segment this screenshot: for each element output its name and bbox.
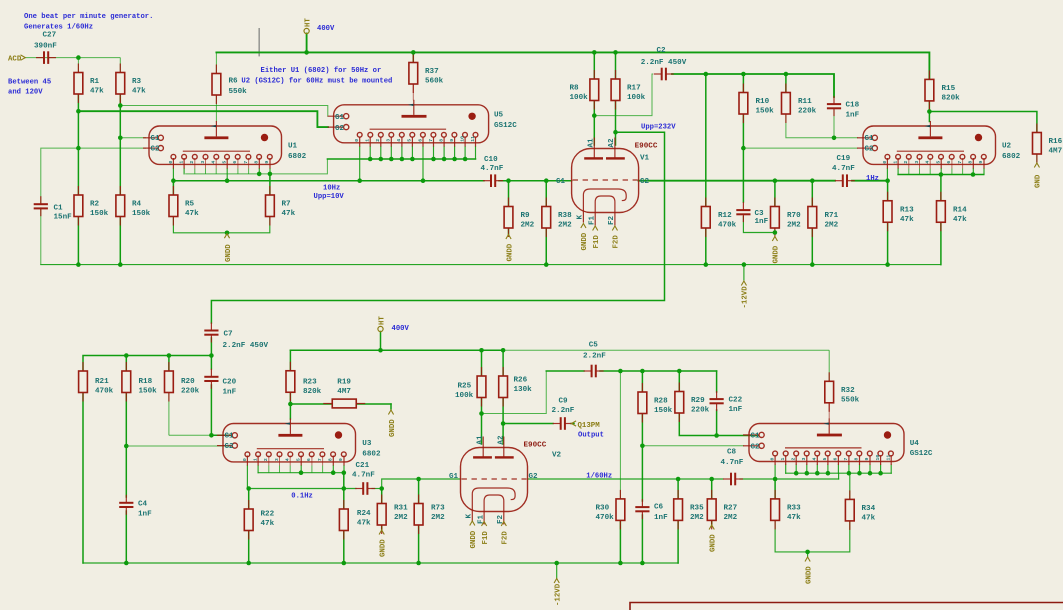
wire R22 column [248,489,250,510]
wire R3-R4 column [119,94,121,195]
svg-text:G2: G2 [335,125,345,133]
svg-text:U1: U1 [288,143,298,151]
wire R8 feed [593,52,595,79]
svg-text:10Hz: 10Hz [323,185,340,193]
svg-text:2M2: 2M2 [394,514,408,522]
resistor R21 [79,362,114,402]
wire R70 stub [774,181,776,207]
svg-text:R4: R4 [132,201,142,209]
supply HT top [304,18,312,34]
wire R31 stub [381,489,383,504]
svg-text:2M2: 2M2 [521,222,535,230]
wire R5 branch [172,181,174,195]
resistor R1 [74,64,104,104]
svg-text:F2D: F2D [613,235,621,249]
svg-text:R70: R70 [787,212,801,220]
svg-text:150k: 150k [132,210,151,218]
title block frame [630,603,1063,610]
wire HT 400V rail top [216,52,929,79]
wire R71 column [811,181,813,207]
output pin Q13PM [572,421,601,430]
svg-text:2M2: 2M2 [431,514,445,522]
svg-text:G1: G1 [151,135,161,143]
wire R3 top stub [119,58,121,73]
svg-text:R35: R35 [690,504,704,512]
wire R32 feed [828,350,830,381]
supply HT bottom [378,316,386,332]
svg-text:2.2nF: 2.2nF [583,353,606,361]
wire R32 to U4 anode [828,403,830,419]
svg-text:R6: R6 [229,78,239,86]
svg-text:E90CC: E90CC [524,441,547,449]
svg-text:G1: G1 [556,178,566,186]
svg-text:GS12C: GS12C [494,122,517,130]
capacitor C4 [119,495,152,519]
wire C5 feed [546,370,584,372]
wire C5 left leg [482,371,548,414]
svg-text:R21: R21 [95,378,109,386]
svg-text:C27: C27 [43,32,57,40]
svg-text:R16: R16 [1049,138,1063,146]
svg-text:560k: 560k [425,78,444,86]
svg-text:R26: R26 [514,377,528,385]
resistor R22 [244,500,274,540]
svg-text:R10: R10 [756,98,770,106]
svg-text:C22: C22 [729,397,743,405]
svg-text:R9: R9 [521,212,531,220]
svg-text:47k: 47k [953,216,967,224]
resistor R20 [165,362,200,402]
wire U5 anode from R37 [412,84,414,100]
svg-text:R31: R31 [394,505,408,513]
svg-text:R19: R19 [337,379,351,387]
svg-text:100k: 100k [627,94,646,102]
resistor R70 [771,198,802,238]
capacitor C18 [827,96,860,119]
svg-text:15nF: 15nF [54,214,73,222]
svg-text:C18: C18 [846,101,860,109]
svg-text:4M7: 4M7 [337,388,351,396]
capacitor C27 [34,32,57,64]
svg-text:470k: 470k [95,388,114,396]
wire C20 column [210,356,212,370]
resistor R17 [611,70,646,110]
svg-text:R13: R13 [900,206,914,214]
svg-text:GNDD: GNDD [470,530,478,548]
resistor R32 [825,372,860,412]
svg-text:R22: R22 [261,511,275,519]
svg-text:R3: R3 [132,78,142,86]
svg-text:4.7nF: 4.7nF [481,165,504,173]
wire 0.1Hz row [249,488,356,490]
junction dots bottom section [124,348,883,565]
capacitor C20 [204,369,236,397]
wire R37 feed [412,52,414,62]
resistor R26 [499,367,532,407]
svg-text:2M2: 2M2 [724,514,738,522]
svg-text:C7: C7 [224,331,234,339]
wire R33 column [774,479,776,499]
svg-text:F1: F1 [589,215,597,225]
capacitor C21 [352,462,375,495]
svg-text:U2: U2 [1002,143,1012,151]
ground GNDD at R19 [388,410,396,437]
resistor R19 [323,379,365,408]
svg-text:U3: U3 [362,440,372,448]
resistor R18 [122,362,157,402]
wire C9 row [503,423,553,425]
net label F1D at V1 [593,226,601,249]
wire U4 pin7 jog [838,473,840,479]
wire R30 column [619,371,621,499]
resistor R34 [845,490,875,530]
wire R21 column [82,392,84,563]
wire R26 feed [502,350,504,376]
svg-text:R23: R23 [303,379,317,387]
wire C2 left leg [594,74,653,116]
wire R34 top [849,473,851,499]
svg-text:4.7nF: 4.7nF [721,459,744,467]
tube V1 E90CC double triode [556,138,658,226]
capacitor C1 [34,196,72,221]
wire U1 anode from R6 [215,95,217,122]
svg-text:Either U1 (6802) for 50Hz or: Either U1 (6802) for 50Hz or [261,67,382,75]
svg-text:R17: R17 [627,85,641,93]
wire R16 to GND [1036,154,1038,162]
wire U4 G2 net [642,445,744,447]
wire V1 A1 [593,101,595,145]
svg-text:C6: C6 [654,504,664,512]
svg-text:C3: C3 [755,210,765,218]
svg-text:G1: G1 [225,433,235,441]
svg-text:R37: R37 [425,68,439,76]
svg-text:0.1Hz: 0.1Hz [291,492,313,500]
wire R11 column [785,74,787,93]
wire U3 G2 net [126,445,230,447]
wire R18-C4 column [125,356,127,372]
wire 1Hz row [639,180,836,182]
capacitor C8 [721,449,744,486]
svg-text:Upp=232V: Upp=232V [641,124,676,132]
svg-text:R11: R11 [798,98,812,106]
svg-text:R15: R15 [942,85,956,93]
svg-text:150k: 150k [756,108,775,116]
svg-text:GNDD: GNDD [805,566,813,584]
resistor R30 [596,490,625,530]
svg-text:C21: C21 [356,462,370,470]
wire 1/60Hz row [528,478,724,480]
svg-text:47k: 47k [261,520,275,528]
wire HT2 drop [380,332,382,351]
junction dots top section [76,50,975,267]
wire U5 cathode bus [327,158,475,160]
capacitor C10 [481,156,504,187]
pin ACD input [8,55,25,64]
resistor R31 [377,495,408,535]
svg-text:6802: 6802 [288,153,307,161]
capacitor C5 [583,342,606,378]
svg-text:550k: 550k [841,396,860,404]
svg-text:1Hz: 1Hz [866,175,879,183]
wire C22 column [716,371,718,392]
resistor R24 [339,500,371,540]
svg-text:GNDD: GNDD [710,534,718,552]
svg-text:Output: Output [578,432,604,440]
wire R6 feed [215,52,217,73]
svg-text:HT: HT [378,316,386,325]
svg-text:47k: 47k [185,210,199,218]
svg-text:R32: R32 [841,387,855,395]
svg-text:R1: R1 [90,78,100,86]
wire R7 branch [269,174,271,195]
svg-text:R29: R29 [691,397,705,405]
wire R35 column [677,479,679,499]
wire R25 bottom to V2 A1 [481,398,483,445]
svg-text:Generates 1/60Hz: Generates 1/60Hz [24,24,93,32]
svg-text:47k: 47k [787,514,801,522]
svg-text:R7: R7 [282,201,292,209]
svg-text:220k: 220k [181,388,200,396]
resistor R29 [675,383,710,423]
wire R16 feed [929,112,1037,133]
wire R17 feed [615,52,617,79]
wire C1 bottom [40,207,42,264]
svg-text:2.2nF 450V: 2.2nF 450V [223,342,269,350]
svg-text:U4: U4 [910,440,920,448]
svg-text:GS12C: GS12C [910,450,933,458]
wire R24 column [343,473,345,509]
wire V1 A2 [615,101,617,145]
ground GNDD at V2 cathode [470,521,478,549]
wire 400V rail bottom [290,349,503,351]
capacitor C2 [641,47,687,80]
svg-text:R30: R30 [596,504,610,512]
wire R20 column [168,356,170,372]
svg-text:HT: HT [304,18,312,27]
svg-text:F2: F2 [608,215,616,225]
svg-text:400V: 400V [392,325,410,333]
wire R29 column [678,371,680,392]
svg-text:F1D: F1D [482,531,490,545]
svg-text:F2D: F2D [502,531,510,545]
net label F2D at V2 [501,522,509,545]
net label F1D at V2 [482,522,490,545]
resistor R23 [286,362,322,402]
svg-text:Upp=10V: Upp=10V [314,193,345,201]
wire R28-C6 column [641,371,643,392]
svg-text:R24: R24 [357,510,371,518]
resistor R2 [74,186,109,226]
svg-text:1nF: 1nF [729,406,743,414]
svg-text:130k: 130k [514,386,533,394]
wire R13 column [887,181,889,201]
svg-text:C1: C1 [54,205,64,213]
svg-text:47k: 47k [132,88,146,96]
wire U1 cathode bus [185,159,327,174]
svg-text:GNDD: GNDD [773,245,781,263]
svg-text:100k: 100k [455,392,474,400]
wire U3 cathode bus [258,472,344,474]
wire U2 G1 net [786,114,858,138]
svg-text:Q13PM: Q13PM [578,422,601,430]
wire -12VD stub bottom [556,563,558,578]
wire R23 feed [289,350,291,371]
svg-text:2M2: 2M2 [787,222,801,230]
wire U5 G1 net [120,106,328,117]
svg-text:G1: G1 [751,433,761,441]
wire U2 anode from R15 [928,101,930,122]
svg-text:G2: G2 [751,444,761,452]
resistor R12 [701,198,736,238]
resistor R35 [674,490,704,530]
capacitor C22 [710,391,743,414]
wire C2 right to C18 [672,74,834,97]
svg-text:R73: R73 [431,505,445,513]
resistor R7 [266,186,296,226]
svg-text:R33: R33 [787,504,801,512]
resistor R25 [455,367,486,407]
resistor R27 [707,490,737,530]
svg-text:E90CC: E90CC [635,143,658,151]
capacitor C19 [832,155,855,187]
svg-text:GND: GND [1035,174,1043,188]
svg-text:C5: C5 [589,342,599,350]
resistor R14 [937,192,968,232]
wire ACD input [25,57,120,59]
tube U2 dekatron 6802 [857,121,1021,181]
svg-text:K: K [577,215,585,220]
capacitor C9 [552,398,575,430]
supply -12VD top section [741,281,749,309]
svg-text:2M2: 2M2 [690,514,704,522]
wire R38 branch [545,181,547,207]
svg-text:GNDD: GNDD [506,243,514,261]
wire -12V rail [41,264,941,266]
wire U2 cathode bus [898,174,984,176]
wire R14 column [940,175,942,201]
svg-text:2M2: 2M2 [558,222,572,230]
svg-text:220k: 220k [691,407,710,415]
tube U5 dekatron GS12C [328,100,518,181]
resistor R38 [542,198,572,238]
svg-text:100k: 100k [570,94,589,102]
wire A2 to C7 link [211,132,664,323]
wire R23 to R19 and U3 anode [290,392,332,404]
svg-text:and 120V: and 120V [8,89,43,97]
resistor R9 [504,198,535,238]
svg-text:GNDD: GNDD [581,232,589,250]
svg-text:47k: 47k [862,514,876,522]
resistor R15 [925,70,960,110]
resistor R73 [414,495,445,535]
svg-text:-12VD: -12VD [742,286,750,309]
svg-text:390nF: 390nF [34,43,57,51]
svg-text:V1: V1 [640,154,650,162]
svg-text:GNDD: GNDD [225,244,233,262]
svg-text:A2: A2 [608,138,616,148]
svg-text:1nF: 1nF [138,511,152,519]
svg-text:150k: 150k [139,388,158,396]
wire R25 feed [481,350,483,376]
gray sheet edge line [258,28,260,56]
svg-text:GNDD: GNDD [389,419,397,437]
ground GNDD at V1 cathode [581,224,589,251]
wire C7 bottom to bias bus [83,338,211,371]
wire U5 G2 net [78,111,328,127]
svg-text:47k: 47k [357,520,371,528]
resistor R37 [409,54,444,94]
wire U1 G2 net from C1 [41,148,146,203]
svg-text:R34: R34 [862,505,876,513]
wire R26 bottom to V2 A2 [502,398,504,445]
svg-text:47k: 47k [282,210,296,218]
svg-text:1nF: 1nF [846,111,860,119]
svg-text:ACD: ACD [8,56,22,64]
capacitor C3 [736,202,768,226]
svg-text:550k: 550k [229,88,248,96]
svg-text:G1: G1 [865,135,875,143]
wire -12VD stub [743,265,745,280]
wire 10Hz row [173,180,484,182]
resistor R10 [739,84,774,124]
svg-text:R28: R28 [654,398,668,406]
resistor R28 [638,383,673,423]
svg-text:A1: A1 [477,435,485,445]
svg-text:C4: C4 [138,500,148,508]
resistor R3 [116,64,146,104]
resistor R5 [169,186,199,226]
resistor R4 [116,186,151,226]
ground GNDD under R9 [506,235,514,262]
svg-text:400V: 400V [317,25,335,33]
svg-text:2M2: 2M2 [825,222,839,230]
resistor R11 [782,84,817,124]
svg-text:470k: 470k [596,514,615,522]
capacitor C7 [204,323,268,350]
svg-text:K: K [466,514,474,519]
wire U1 G1 stub [120,137,146,139]
svg-text:R14: R14 [953,206,967,214]
svg-text:220k: 220k [798,108,817,116]
resistor R8 [570,70,599,110]
svg-text:C9: C9 [559,398,569,406]
svg-text:820k: 820k [942,95,961,103]
svg-text:47k: 47k [900,216,914,224]
svg-text:C19: C19 [837,155,851,163]
svg-text:Between 45: Between 45 [8,79,51,87]
resistor R71 [808,198,839,238]
wire U2 G2 net [743,147,858,149]
svg-text:G2: G2 [640,178,650,186]
svg-text:R2: R2 [90,201,100,209]
wire ground rail bottom [83,562,678,564]
tube U1 dekatron 6802 [143,121,307,181]
resistor R33 [771,490,801,530]
svg-text:R27: R27 [724,504,738,512]
wire R73 column [418,479,420,504]
svg-text:R5: R5 [185,201,195,209]
ground GNDD under R27 [709,525,717,552]
svg-text:U5: U5 [494,112,504,120]
svg-text:G1: G1 [335,114,345,122]
svg-text:R12: R12 [718,212,732,220]
svg-text:R71: R71 [825,212,839,220]
svg-text:A1: A1 [588,138,596,148]
wire GNDD stub bottom [807,552,809,557]
svg-text:U2 (GS12C) for 60Hz must be mo: U2 (GS12C) for 60Hz must be mounted [241,78,392,86]
svg-text:C10: C10 [484,156,498,164]
wire V2 G1 net [382,479,461,489]
